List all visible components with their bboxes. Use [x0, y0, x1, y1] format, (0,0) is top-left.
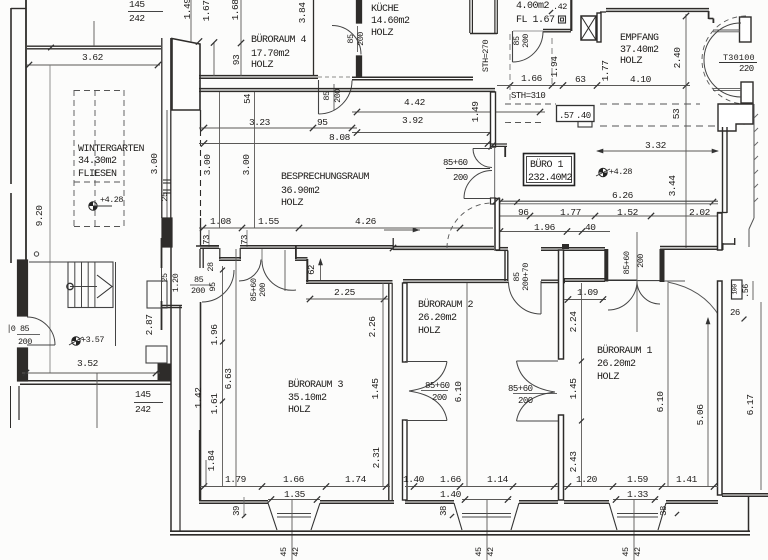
door fl leaf: [512, 31, 514, 62]
svg-text:25: 25: [160, 192, 170, 202]
wall bueroraum3 top: [306, 280, 393, 282]
svg-text:HOLZ: HOLZ: [251, 60, 274, 71]
svg-text:3.44: 3.44: [667, 175, 678, 197]
svg-text:1.59: 1.59: [627, 474, 649, 485]
svg-text:4.00m2: 4.00m2: [516, 1, 550, 12]
svg-text:39: 39: [232, 506, 242, 516]
thin frame line x285: [284, 250, 286, 291]
svg-text:85+60: 85+60: [508, 384, 533, 394]
svg-text:4.42: 4.42: [404, 97, 426, 108]
dashed door sill kueche: [318, 76, 352, 78]
svg-text:38: 38: [659, 506, 669, 516]
dim verticals bueroraum3 left: [222, 266, 224, 487]
svg-text:45: 45: [474, 547, 484, 557]
svg-text:FLIESEN: FLIESEN: [78, 169, 117, 180]
wall bueroraum2/1 divider upper: [559, 250, 564, 359]
svg-text:6.26: 6.26: [612, 190, 634, 201]
door center line: [636, 232, 638, 332]
wall bottom outer band: [170, 530, 750, 532]
svg-text:1.09: 1.09: [577, 287, 599, 298]
svg-text:42: 42: [291, 547, 301, 557]
wall buero bottom east of door: [541, 247, 605, 249]
svg-text:1.84: 1.84: [206, 450, 217, 472]
svg-text:3.23: 3.23: [249, 117, 271, 128]
box .57 .40: [557, 106, 595, 122]
svg-text:HOLZ: HOLZ: [288, 405, 311, 416]
door arc top: [473, 149, 492, 168]
wall fl left: [494, 0, 496, 34]
svg-text:BÜRORAUM 3: BÜRORAUM 3: [288, 378, 344, 391]
svg-text:42: 42: [633, 547, 643, 557]
stair top edge line: [29, 261, 113, 263]
svg-text:45: 45: [279, 547, 289, 557]
svg-text:220: 220: [739, 64, 754, 74]
svg-text:9.20: 9.20: [34, 205, 45, 227]
wall bueroraum2 top: [403, 279, 508, 281]
wall empfang top: [606, 8, 709, 10]
svg-text:62: 62: [307, 265, 317, 275]
svg-text:3.52: 3.52: [77, 358, 99, 369]
landing inner box: [147, 281, 167, 308]
wall empfang lower boundary: [660, 246, 723, 248]
window bueroraum3 splays: [268, 503, 277, 530]
dashed lines empfang south: [600, 103, 700, 105]
svg-text:1.08: 1.08: [210, 216, 232, 227]
svg-text:200: 200: [356, 32, 366, 46]
svg-text:200: 200: [258, 283, 268, 297]
wall bueroraum2 left upper: [403, 283, 408, 362]
vestibule recess verticals: [219, 248, 221, 259]
wall left outer line A: [25, 0, 27, 264]
corner tick x492: [493, 198, 500, 205]
wall kueche bottom: [352, 76, 473, 78]
wall central vertical x492-496: [495, 199, 500, 251]
wall mid column thin lower: [166, 110, 168, 218]
dim chain verticals br1 left: [581, 283, 583, 487]
door leaf bottom: [464, 198, 492, 200]
svg-text:200+70: 200+70: [521, 263, 531, 291]
svg-text:200: 200: [191, 286, 205, 296]
door kueche-south leaf: [318, 80, 320, 114]
svg-text:HOLZ: HOLZ: [371, 28, 394, 39]
svg-text:1.74: 1.74: [345, 474, 367, 485]
double door vestibule arcs: [239, 260, 261, 282]
svg-text:.42: .42: [553, 2, 567, 12]
svg-text:4.10: 4.10: [630, 74, 652, 85]
svg-text:1.94: 1.94: [549, 56, 560, 78]
svg-text:95: 95: [317, 117, 328, 128]
svg-text:1.77: 1.77: [600, 61, 611, 82]
door besprechungsraum 85+60 leaf top: [473, 148, 492, 150]
wall left lower column segments: [161, 238, 163, 268]
wall bueroraum2/1 divider lower: [559, 415, 564, 500]
wall besprechungsraum right upper: [491, 92, 496, 147]
svg-text:∣0 85: ∣0 85: [7, 324, 30, 334]
svg-text:35.10m2: 35.10m2: [288, 393, 327, 404]
window marks mid column: [163, 179, 171, 181]
svg-text:.40: .40: [576, 111, 591, 121]
wall bueroraum4/kueche partition: [313, 0, 315, 76]
svg-text:BÜRO 1: BÜRO 1: [530, 158, 564, 171]
left wall lower bars and door: [18, 260, 28, 316]
stair treads: [74, 262, 76, 308]
stair walk line with circle: [70, 286, 97, 288]
svg-text:3.00: 3.00: [241, 154, 252, 176]
entry door jamb upper box: [740, 17, 752, 42]
svg-text:200: 200: [636, 254, 646, 268]
svg-text:1.66: 1.66: [440, 474, 462, 485]
svg-text:95: 95: [208, 282, 218, 292]
entry door lintel lines: [713, 29, 740, 31]
wall horizontal y380-385: [20, 380, 171, 382]
svg-text:26.20m2: 26.20m2: [597, 359, 636, 370]
svg-text:1.67: 1.67: [201, 1, 212, 22]
wall bueroraum2 bottom parts: [405, 500, 454, 502]
svg-text:232.40M2: 232.40M2: [528, 173, 573, 184]
svg-text:14.60m2: 14.60m2: [371, 16, 410, 27]
svg-text:WINTERGARTEN: WINTERGARTEN: [78, 144, 145, 155]
svg-text:BÜRORAUM 1: BÜRORAUM 1: [597, 344, 653, 357]
window center line bueroraum1: [633, 499, 635, 560]
black filled box: [158, 364, 170, 381]
stub line x94 above wintergarten: [93, 21, 95, 46]
svg-text:145: 145: [129, 0, 145, 10]
wall bueroraum3 bottom right part: [320, 500, 394, 502]
svg-text:BESPRECHUNGSRAUM: BESPRECHUNGSRAUM: [281, 172, 370, 183]
svg-text:6.10: 6.10: [655, 391, 666, 413]
svg-text:42: 42: [486, 547, 496, 557]
label box BUERO 1 232.40M2: [524, 154, 575, 186]
door fl arc: [513, 32, 544, 63]
svg-text:1.45: 1.45: [370, 378, 381, 400]
level marker +4.28 wintergarten: [89, 202, 97, 210]
wall bottom right corner: [722, 493, 768, 495]
dimension vertical x686: [685, 14, 687, 248]
wall jamb right of br1 door: [660, 250, 664, 282]
svg-text:3.32: 3.32: [645, 140, 667, 151]
level marker +3.57: [72, 337, 80, 345]
svg-text:1.35: 1.35: [284, 489, 306, 500]
svg-text:1.79: 1.79: [225, 474, 247, 485]
svg-text:+4.28: +4.28: [100, 195, 123, 205]
chimney hatched box: [581, 16, 596, 40]
door kueche-south arc: [319, 81, 353, 115]
wall wintergarten top: [27, 45, 161, 47]
svg-text:+4.28: +4.28: [609, 167, 632, 177]
wall bueroraum3 bottom left part: [199, 500, 268, 502]
entry door swing arc dashed: [702, 16, 746, 104]
svg-text:1.20: 1.20: [171, 273, 181, 292]
svg-text:85: 85: [194, 275, 204, 285]
svg-text:1.40: 1.40: [403, 474, 425, 485]
window bueroraum1 splays: [609, 503, 617, 530]
wall kueche left upper stub: [357, 0, 362, 23]
door divider leaves: [517, 360, 559, 362]
svg-text:8.08: 8.08: [329, 132, 351, 143]
door vestibule-west 85/200 arc: [202, 270, 234, 302]
svg-text:85: 85: [346, 34, 356, 44]
door bueroraum2 west arcs: [409, 362, 447, 392]
box 100 right: [732, 280, 743, 299]
wall kueche right: [469, 0, 471, 33]
svg-text:200: 200: [18, 337, 32, 347]
svg-text:2.24: 2.24: [568, 311, 579, 333]
wall vertical x171 long: [170, 238, 172, 531]
svg-text:1.68: 1.68: [230, 0, 241, 20]
svg-text:85+60: 85+60: [622, 251, 632, 274]
svg-text:1.66: 1.66: [521, 73, 543, 84]
svg-text:1.40: 1.40: [440, 489, 462, 500]
svg-text:KÜCHE: KÜCHE: [371, 2, 399, 15]
arrow line into besprechungsraum: [384, 229, 420, 231]
svg-text:54: 54: [243, 94, 253, 104]
wall bueroraum4 bottom: [199, 75, 318, 77]
wall fl right: [570, 0, 572, 31]
wall step top right corner: [722, 243, 724, 250]
pillar between wintergarten and bueroraum4: [172, 39, 200, 111]
door bueroraum1 left leaf: [608, 279, 637, 281]
double door vestibule center line: [261, 249, 263, 261]
svg-text:6.17: 6.17: [745, 395, 756, 416]
svg-text:.57: .57: [559, 111, 574, 121]
door bueroraum1 arcs: [608, 281, 637, 310]
svg-text:HOLZ: HOLZ: [597, 372, 620, 383]
svg-text:2.26: 2.26: [367, 316, 378, 338]
corridor door swing arc: [668, 282, 720, 317]
svg-text:3.84: 3.84: [297, 2, 308, 24]
svg-text:200: 200: [432, 393, 447, 403]
landing right vertical: [115, 262, 117, 346]
dashed stub lines: [505, 103, 556, 105]
window center line bueroraum3: [291, 499, 293, 560]
wall bueroraum3 left upper: [199, 249, 201, 268]
svg-text:85+60: 85+60: [443, 158, 468, 168]
svg-text:100: 100: [732, 284, 739, 295]
door bueroraum2 top leaf: [540, 281, 542, 314]
wall horizontal y306: [161, 304, 182, 306]
dimension line 9.20 vertical: [49, 65, 51, 373]
wall left outer line B: [10, 8, 12, 184]
svg-text:1.41: 1.41: [676, 474, 698, 485]
landing small box: [146, 346, 167, 363]
svg-text:242: 242: [129, 13, 145, 24]
wall besprechungsraum left: [200, 110, 202, 130]
svg-text:1.20: 1.20: [576, 474, 598, 485]
stair direction arrow: [97, 275, 112, 298]
wall empfang west: [597, 13, 601, 42]
svg-text:2.25: 2.25: [334, 287, 356, 298]
wall besprechungsraum top: [199, 88, 495, 90]
wall vertical x180: [179, 306, 181, 531]
svg-text:1.42: 1.42: [193, 387, 204, 409]
svg-text:1.14: 1.14: [487, 474, 509, 485]
wall jamb left of br1 door: [605, 250, 608, 282]
wall buero south boundary upper: [495, 200, 718, 202]
svg-text:FL 1.67: FL 1.67: [516, 15, 555, 26]
boundary line right with hatches: [753, 104, 755, 218]
svg-text:26: 26: [730, 308, 740, 318]
svg-text:145: 145: [135, 389, 151, 400]
svg-text:6.10: 6.10: [453, 381, 464, 403]
svg-text:17.70m2: 17.70m2: [251, 49, 290, 60]
stairs outline: [68, 262, 113, 308]
door kueche 85/200 arc: [332, 26, 361, 55]
wall bueroraum1 bottom parts: [564, 500, 609, 502]
dashed door arc at buero south: [447, 203, 492, 248]
svg-text:BÜRORAUM 4: BÜRORAUM 4: [251, 33, 307, 46]
wall kueche left lower stub: [357, 56, 362, 77]
svg-text:+3.57: +3.57: [81, 335, 104, 345]
wall step kueche-fl: [470, 33, 497, 35]
svg-text:3.62: 3.62: [82, 52, 104, 63]
svg-text:45: 45: [621, 547, 631, 557]
wall left top connector: [11, 8, 26, 10]
vertical connector x393: [392, 238, 394, 250]
wall bueroraum2 left lower: [403, 420, 408, 500]
wall besprechungsraum right lower piece: [491, 198, 496, 204]
right edge thin line: [760, 302, 762, 490]
svg-text:200: 200: [453, 173, 468, 183]
svg-text:EMPFANG: EMPFANG: [620, 33, 659, 44]
svg-text:1.49: 1.49: [470, 101, 481, 123]
svg-text:200: 200: [521, 34, 531, 48]
door bueroraum1 right leaf: [637, 280, 660, 282]
svg-text:4.26: 4.26: [355, 216, 377, 227]
wall vestibule recess east: [295, 257, 308, 259]
svg-text:85+60: 85+60: [425, 381, 450, 391]
wall bueroraum1 right: [718, 213, 723, 250]
svg-text:3.00: 3.00: [149, 153, 160, 175]
svg-text:T30100: T30100: [723, 53, 755, 63]
symbol small box wc: [559, 16, 566, 23]
svg-text:242: 242: [135, 404, 151, 415]
label 1.84 tick lines: [205, 460, 207, 487]
wall fl bottom right part: [543, 29, 571, 31]
door left 85/200 arc: [27, 317, 55, 345]
svg-text:63: 63: [575, 74, 586, 85]
wall vestibule recess south: [219, 257, 241, 259]
svg-text:26.20m2: 26.20m2: [418, 313, 457, 324]
svg-text:37.40m2: 37.40m2: [620, 45, 659, 56]
svg-text:BÜRORAUM 2: BÜRORAUM 2: [418, 298, 474, 311]
svg-text:2.40: 2.40: [672, 47, 683, 69]
svg-text:1.55: 1.55: [258, 216, 280, 227]
svg-text:73: 73: [240, 235, 250, 245]
svg-text:HOLZ: HOLZ: [620, 56, 643, 67]
corner tick x492 y146: [489, 143, 496, 150]
svg-text:6.63: 6.63: [223, 368, 234, 390]
entry lower wall box: [718, 104, 753, 131]
wall bueroraum3 left lower: [200, 302, 202, 500]
entry door swing arc: [704, 23, 741, 97]
door arc bottom: [464, 171, 492, 199]
vestibule wall piece x196-219 band: [196, 245, 219, 247]
svg-text:1.66: 1.66: [283, 474, 305, 485]
svg-text:STH=270: STH=270: [481, 40, 491, 73]
svg-text:53: 53: [671, 108, 682, 119]
level marker +4.28 buero: [599, 168, 607, 176]
wall bueroraum3 left lower outer: [199, 430, 201, 500]
dim vertical x97: [96, 373, 98, 428]
door divider arcs: [517, 361, 556, 392]
svg-text:36.90m2: 36.90m2: [281, 186, 320, 197]
svg-text:.56: .56: [741, 284, 751, 298]
door bueroraum2 top arc: [509, 282, 542, 315]
svg-text:34.30m2: 34.30m2: [78, 156, 117, 167]
svg-text:2.31: 2.31: [371, 447, 382, 469]
svg-text:HOLZ: HOLZ: [281, 198, 304, 209]
wall besprechungsraum bottom main segment: [240, 245, 393, 247]
wintergarten glass roof dashed grid: [73, 90, 75, 227]
wall left stub below: [18, 386, 20, 420]
svg-text:93: 93: [231, 54, 242, 65]
dimension verticals bueroraum4: [190, 0, 192, 42]
svg-text:STH=310: STH=310: [511, 91, 545, 101]
wall besprechungsraum bottom west segment: [200, 245, 219, 247]
wall black pier: [162, 218, 172, 247]
wall stub vertical x506 above: [504, 251, 506, 282]
wall empfang east step: [708, 11, 710, 19]
svg-text:85: 85: [322, 91, 332, 101]
svg-text:3.00: 3.00: [202, 154, 213, 176]
window center line bueroraum2: [486, 499, 488, 560]
svg-text:1.61: 1.61: [209, 393, 220, 415]
svg-text:1.33: 1.33: [627, 489, 649, 500]
svg-text:200: 200: [518, 396, 533, 406]
node circle left: [34, 252, 38, 256]
entry door jamb lower box: [741, 82, 753, 103]
wall mid column left pair: [161, 38, 163, 218]
tick on wintergarten wall: [48, 45, 54, 51]
svg-text:28: 28: [206, 262, 216, 272]
fl door head line: [513, 30, 543, 32]
door bueroraum2 west leaves: [405, 361, 447, 363]
divider top notch: [563, 245, 569, 249]
dimension verticals 3.00: [219, 92, 221, 228]
svg-text:38: 38: [439, 506, 449, 516]
svg-text:HOLZ: HOLZ: [418, 326, 441, 337]
svg-text:1.45: 1.45: [568, 378, 579, 400]
svg-text:73: 73: [202, 235, 212, 245]
svg-text:5.06: 5.06: [695, 404, 706, 426]
svg-text:1.96: 1.96: [209, 324, 220, 346]
wall buero bottom west part: [393, 246, 494, 248]
svg-text:2.43: 2.43: [568, 451, 579, 473]
svg-text:3.92: 3.92: [402, 115, 424, 126]
wall bueroraum3 right: [388, 283, 390, 500]
svg-text:2.87: 2.87: [144, 315, 155, 336]
window bueroraum2 splays: [454, 503, 462, 530]
wall vestibule connector vertical: [306, 259, 308, 282]
wall bueroraum1 top west part: [564, 278, 605, 280]
